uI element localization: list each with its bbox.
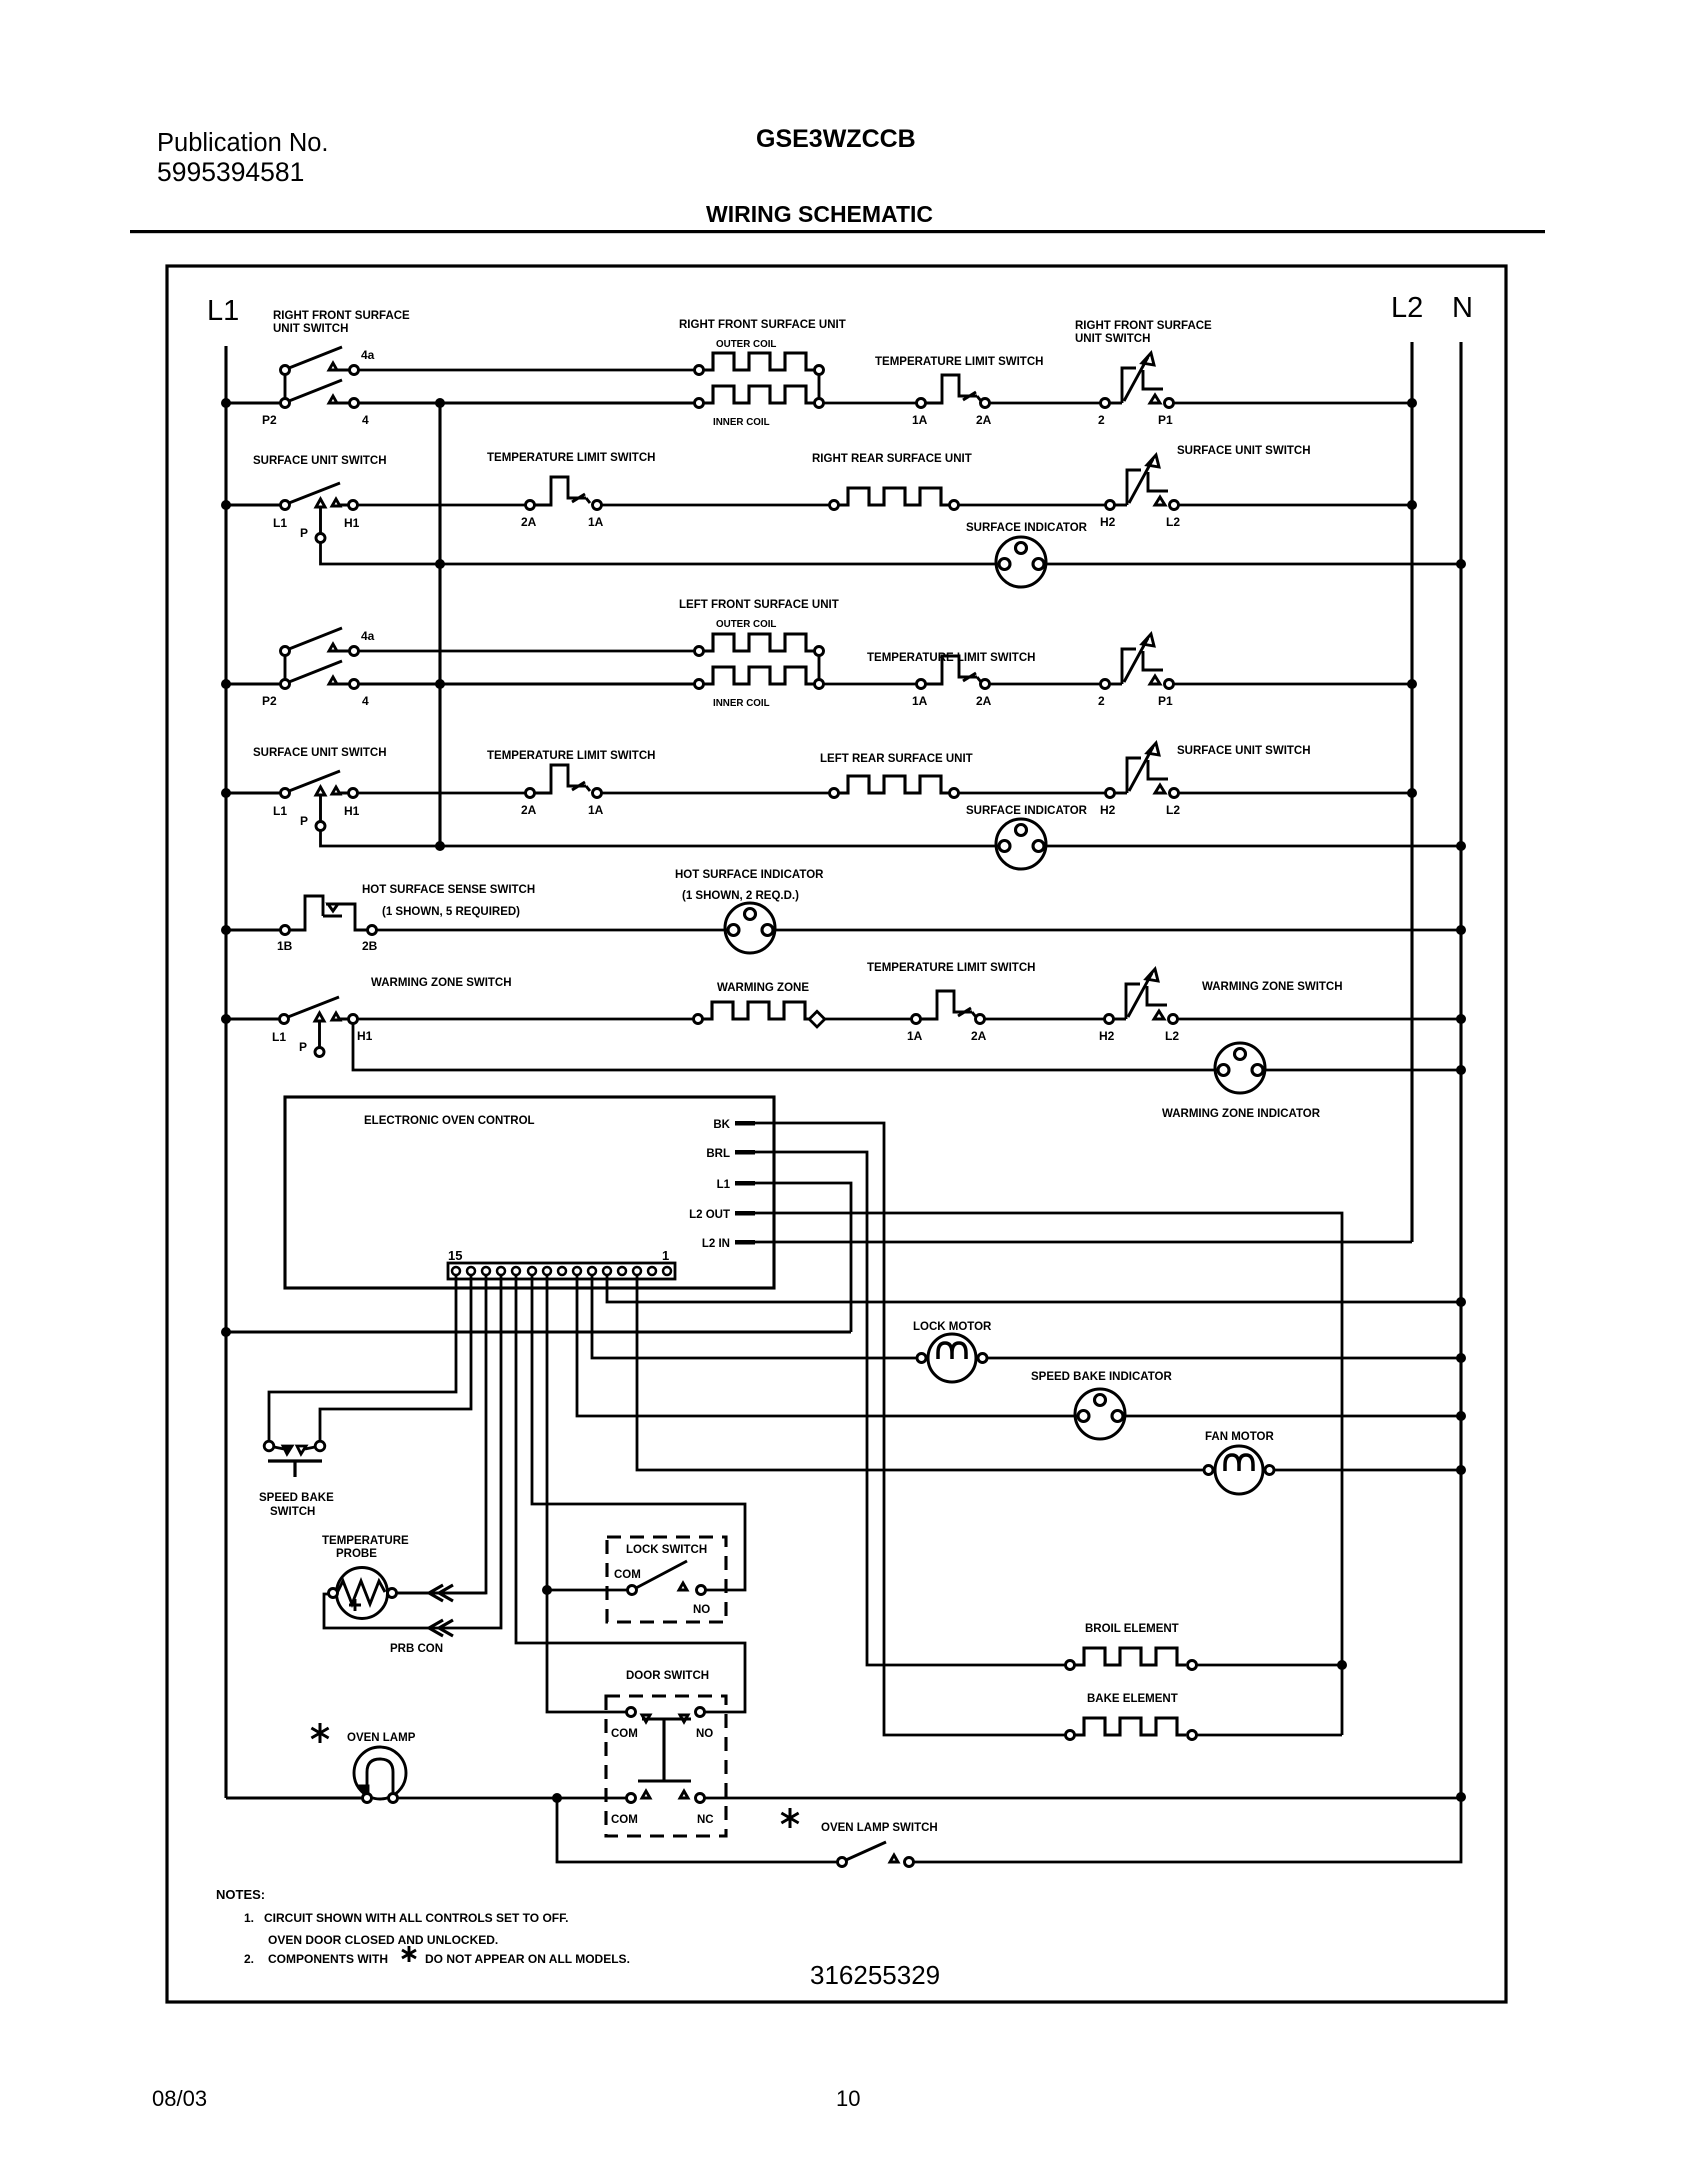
junction row3 / L2 [1407,500,1417,510]
label speed bake switch [259,1492,334,1518]
svg-text:Publication No.: Publication No. [157,129,329,157]
svg-text:OUTER COIL: OUTER COIL [716,339,776,350]
wire: L1 supply vertical line [224,346,227,1798]
junction L1 line / L1 row [221,1327,231,1337]
junction L1/row3 [221,500,231,510]
wire oven lamp switch to N [913,1797,1461,1862]
indicator lamp: hot surface indicator [725,903,775,953]
svg-text:BROIL ELEMENT: BROIL ELEMENT [1085,1623,1179,1635]
svg-text:INNER COIL: INNER COIL [713,698,770,709]
svg-text:H2: H2 [1100,515,1116,529]
svg-text:1A: 1A [907,1029,923,1043]
svg-text:L1: L1 [207,295,239,327]
svg-text:PRB CON: PRB CON [390,1643,443,1655]
wire pin7 to speed bake indicator [577,1275,1075,1416]
heater element: left rear surface unit [830,789,839,798]
svg-text:2A: 2A [976,413,992,427]
svg-text:H1: H1 [344,516,360,530]
terminal L2 OUT stub [735,1211,755,1216]
switch P2 left front surface unit switch (double pole) [281,628,359,689]
svg-text:5995394581: 5995394581 [157,157,304,187]
wire row2: coil to 1A [823,402,917,405]
wire row1: contact 4a to outer coil [358,369,695,372]
svg-text:COMPONENTS WITH: COMPONENTS WITH [268,1952,388,1966]
wire row3: H1 to 2A [357,504,526,507]
svg-text:TEMPERATURE LIMIT SWITCH: TEMPERATURE LIMIT SWITCH [875,356,1043,368]
svg-text:316255329: 316255329 [810,1960,940,1990]
svg-text:RIGHT FRONT SURFACE UNIT: RIGHT FRONT SURFACE UNIT [679,319,846,331]
label right front surface unit switch (left) [273,310,410,335]
svg-text:OUTER COIL: OUTER COIL [716,619,776,630]
switch: warming zone switch L1/P/H1 [280,997,358,1057]
svg-text:H2: H2 [1099,1029,1115,1043]
svg-text:SURFACE UNIT SWITCH: SURFACE UNIT SWITCH [1177,745,1311,757]
wire row7: H1 to 2A [357,792,526,795]
hot surface sense switch 1B/2B [281,896,377,935]
heater element: right front inner coil [695,399,704,408]
wire probe right to chevron [396,1592,486,1595]
svg-text:WARMING ZONE: WARMING ZONE [717,982,809,994]
svg-text:UNIT SWITCH: UNIT SWITCH [273,323,348,335]
svg-text:TEMPERATURE LIMIT SWITCH: TEMPERATURE LIMIT SWITCH [867,962,1035,974]
svg-text:1: 1 [662,1248,669,1263]
junction row2 / x440 riser [435,398,445,408]
junction row11 / N [1456,1065,1466,1075]
svg-text:L2: L2 [1166,803,1180,817]
svg-text:TEMPERATURE LIMIT SWITCH: TEMPERATURE LIMIT SWITCH [487,750,655,762]
wire row6 left: L1 to switch P2 [226,682,281,685]
wire pin3 to fan motor [637,1275,1215,1470]
asterisk note 2 [402,1946,416,1962]
junction row10 / N [1456,1014,1466,1024]
svg-text:SURFACE INDICATOR: SURFACE INDICATOR [966,522,1088,534]
svg-text:2B: 2B [362,939,378,953]
wire: N neutral vertical line [1459,342,1462,1797]
svg-text:COM: COM [611,1728,638,1740]
svg-text:SPEED BAKE INDICATOR: SPEED BAKE INDICATOR [1031,1371,1172,1383]
svg-text:L1: L1 [273,516,287,530]
junction row8 / N [1456,841,1466,851]
lock switch dashed enclosure [607,1537,726,1622]
junction row4 / N [1456,559,1466,569]
wire pin5 to neutral [607,1275,1461,1302]
junction row7 / L2 [1407,788,1417,798]
svg-text:L1: L1 [272,1030,286,1044]
svg-text:P: P [299,1040,307,1054]
svg-text:L1: L1 [717,1179,731,1191]
label temperature probe [322,1535,409,1560]
svg-text:2A: 2A [971,1029,987,1043]
svg-text:2A: 2A [521,803,537,817]
svg-text:UNIT SWITCH: UNIT SWITCH [1075,333,1150,345]
svg-text:1A: 1A [912,413,928,427]
speed bake switch actuator bar [268,1461,322,1477]
svg-text:2: 2 [1098,413,1105,427]
svg-text:BRL: BRL [706,1148,730,1160]
wire BRL: EOC to broil element feed [755,1152,1065,1665]
wire row7: L1 to switch [226,791,281,794]
svg-text:HOT SURFACE INDICATOR: HOT SURFACE INDICATOR [675,869,824,881]
wire L2 IN: EOC to L2 line [755,1241,1412,1244]
junction lock motor row / N [1456,1353,1466,1363]
svg-text:08/03: 08/03 [152,2086,207,2111]
switch: left front surface unit switch contact 2/P1 [1101,680,1110,689]
svg-text:H1: H1 [344,804,360,818]
svg-text:LOCK MOTOR: LOCK MOTOR [913,1321,992,1333]
svg-text:15: 15 [448,1248,462,1263]
svg-text:L2 OUT: L2 OUT [689,1209,730,1221]
svg-text:P: P [300,814,308,828]
wire pin6 to lock motor [592,1275,918,1358]
svg-text:INNER COIL: INNER COIL [713,417,770,428]
wire pin9 to door switch COM [547,1275,627,1712]
wire: tie between outer/inner coil right terminals [818,374,821,399]
wire pin10 to lock switch NO [532,1275,745,1590]
svg-text:SURFACE UNIT SWITCH: SURFACE UNIT SWITCH [1177,445,1311,457]
svg-text:2A: 2A [521,515,537,529]
temperature limit switch row7 (2A/1A) [526,789,535,798]
svg-text:TEMPERATURE: TEMPERATURE [322,1535,409,1547]
switch: surface unit switch contact H2/L2 row7 [1106,789,1115,798]
switch P2 right front surface unit switch (double pole) [281,347,359,408]
wire row9: L1 to 1B [226,928,281,931]
wire row10: 2A to H2 [984,1018,1105,1021]
switch: surface unit switch L1/P/H1 row3 [281,483,358,543]
wire broil element to L2 OUT bus [1196,1664,1342,1667]
svg-text:P2: P2 [262,413,277,427]
svg-text:SPEED BAKE: SPEED BAKE [259,1492,334,1504]
svg-text:OVEN LAMP SWITCH: OVEN LAMP SWITCH [821,1822,938,1834]
junction row8 / x440 riser [435,841,445,851]
heater element: warming zone [694,1015,703,1024]
wire row3: coil to H2 [958,504,1106,507]
heater element: bake element [1066,1731,1075,1740]
wire pin11 to door switch NO [516,1275,745,1712]
wire lamp row drop to oven lamp switch [557,1798,838,1862]
wire row2 left: L1 to switch P2 [226,401,281,404]
svg-text:RIGHT FRONT SURFACE: RIGHT FRONT SURFACE [273,310,410,322]
svg-text:LEFT REAR SURFACE UNIT: LEFT REAR SURFACE UNIT [820,753,973,765]
door switch lower contacts COM/NC [627,1791,705,1803]
wire: L2 supply vertical line [1410,342,1413,1242]
svg-text:L1: L1 [273,804,287,818]
svg-text:RIGHT FRONT SURFACE: RIGHT FRONT SURFACE [1075,320,1212,332]
svg-text:DO NOT APPEAR ON ALL MODELS.: DO NOT APPEAR ON ALL MODELS. [425,1952,630,1966]
indicator lamp: speed bake indicator [1075,1389,1125,1439]
switch: right front surface unit switch contact 2/P1 [1101,399,1110,408]
indicator lamp: warming zone indicator [1215,1043,1265,1093]
oven lamp [354,1747,406,1803]
wire row10: H1 to warming zone element [357,1018,694,1021]
svg-text:BAKE ELEMENT: BAKE ELEMENT [1087,1693,1178,1705]
svg-text:TEMPERATURE LIMIT SWITCH: TEMPERATURE LIMIT SWITCH [867,652,1035,664]
wire row2: P1 to L2 [1173,402,1412,405]
temperature limit switch row10 (1A/2A) [912,1015,921,1024]
junction L1/row6 [221,679,231,689]
svg-text:2: 2 [1098,694,1105,708]
switch: oven lamp switch [838,1842,914,1867]
wire row7: coil to H2 [958,792,1106,795]
svg-text:4: 4 [362,694,369,708]
label hot surface indicator [675,869,824,902]
wire row9: indicator to N [775,929,1461,932]
svg-text:OVEN LAMP: OVEN LAMP [347,1732,416,1744]
svg-text:TEMPERATURE LIMIT SWITCH: TEMPERATURE LIMIT SWITCH [487,452,655,464]
asterisk oven lamp [311,1723,328,1743]
svg-text:OVEN DOOR CLOSED AND UNLOCKED.: OVEN DOOR CLOSED AND UNLOCKED. [268,1933,498,1947]
svg-text:PROBE: PROBE [336,1548,377,1560]
svg-text:10: 10 [836,2086,860,2111]
terminal BRL stub [735,1150,755,1155]
svg-text:HOT SURFACE SENSE SWITCH: HOT SURFACE SENSE SWITCH [362,884,535,896]
wire L1: EOC down to L1 row [755,1183,851,1332]
svg-text:L2: L2 [1166,515,1180,529]
heater element: right front outer coil [695,366,704,375]
wire: tie between left front coil right terminals [818,655,821,680]
svg-text:RIGHT REAR SURFACE UNIT: RIGHT REAR SURFACE UNIT [812,453,972,465]
indicator lamp: surface indicator row8 [996,819,1046,869]
temperature limit switch row6 (1A/2A) [917,680,926,689]
svg-text:P1: P1 [1158,694,1173,708]
svg-text:NO: NO [693,1604,710,1616]
svg-text:4: 4 [362,413,369,427]
wire pin9 branch to lock switch COM [547,1589,628,1592]
svg-text:NOTES:: NOTES: [216,1887,265,1902]
label hot surface sense switch [362,884,535,918]
wire row3: 1A to coil [601,504,830,507]
wire row7: L2 contact to L2 line [1178,792,1412,795]
svg-text:P2: P2 [262,694,277,708]
wire pin14 to speed bake switch right [320,1275,471,1441]
terminal diamond warming zone right [809,1011,825,1027]
wire fan motor to N [1274,1469,1461,1472]
svg-text:L2 IN: L2 IN [702,1238,730,1250]
junction L1/row2 [221,398,231,408]
wire row5: contact 4a to outer coil [358,650,695,653]
junction L1/row7 [221,788,231,798]
svg-text:DOOR SWITCH: DOOR SWITCH [626,1670,709,1682]
wire lock motor to N [987,1357,1461,1360]
svg-text:SURFACE UNIT SWITCH: SURFACE UNIT SWITCH [253,747,387,759]
temperature limit switch row3 (2A/1A) [526,501,535,510]
label right front surface unit switch (right) [1075,320,1212,345]
wire door switch NC to N [704,1797,1461,1800]
svg-text:1A: 1A [912,694,928,708]
svg-text:2A: 2A [976,694,992,708]
wire row6: 2A to contact 2 [989,683,1101,686]
junction row9 / N [1456,925,1466,935]
pin connector circles 15..1 [452,1267,671,1275]
switch: surface unit switch L1/P/H1 row7 [281,771,358,831]
svg-text:2.: 2. [244,1952,254,1966]
junction row2 / L2 [1407,398,1417,408]
wire: riser x440 [438,403,441,846]
svg-text:WARMING ZONE INDICATOR: WARMING ZONE INDICATOR [1162,1108,1321,1120]
wire bake element to L2 OUT bus [1196,1734,1342,1737]
wire row6: P1 to L2 [1173,683,1412,686]
wire row6: coil to 1A [823,683,917,686]
junction speed bake indicator row / N [1456,1411,1466,1421]
wire pin13 to temperature probe [396,1275,486,1593]
terminal L1 stub [735,1181,755,1186]
heater element: broil element [1066,1661,1075,1670]
connector chevrons PRB CON top [429,1585,453,1601]
svg-text:COM: COM [614,1569,641,1581]
svg-text:4a: 4a [361,348,375,362]
svg-text:ELECTRONIC OVEN CONTROL: ELECTRONIC OVEN CONTROL [364,1115,535,1127]
svg-text:WIRING SCHEMATIC: WIRING SCHEMATIC [706,201,933,227]
svg-text:FAN MOTOR: FAN MOTOR [1205,1431,1274,1443]
temperature limit switch row2 (1A/2A) [917,399,926,408]
svg-text:WARMING ZONE SWITCH: WARMING ZONE SWITCH [371,977,512,989]
junction door NC row / N [1456,1792,1466,1802]
switch: surface unit switch contact H2/L2 row3 [1106,501,1115,510]
terminal BK stub [735,1121,755,1126]
svg-text:4a: 4a [361,629,375,643]
svg-text:SURFACE UNIT SWITCH: SURFACE UNIT SWITCH [253,455,387,467]
door switch upper contacts COM/NO [627,1708,705,1723]
svg-text:SURFACE INDICATOR: SURFACE INDICATOR [966,805,1088,817]
svg-text:P: P [300,526,308,540]
wire row11: H1 drop to warming zone indicator [353,1023,1215,1070]
title underline rule [130,230,1545,233]
asterisk oven lamp switch [781,1808,798,1828]
EOC pin connector strip [448,1263,675,1279]
junction pin5 row / N [1456,1297,1466,1307]
wire row3: L2 contact to L2 line [1178,504,1412,507]
switch: warming zone switch contact H2/L2 [1105,1015,1114,1024]
wire row8: P contact down and right to indicator [321,830,997,846]
svg-text:COM: COM [611,1814,638,1826]
switch: lock switch COM/NO [628,1561,706,1595]
junction broil row / L2 OUT bus [1337,1660,1347,1670]
wire L2 OUT: EOC to element bus [755,1213,1342,1735]
wire BK: EOC to bake element feed [755,1123,1065,1735]
heater element: left front outer coil [695,647,704,656]
wire L1 row: L1 line to EOC L1 drop [226,1330,851,1333]
temperature probe (sensor) [329,1568,397,1619]
wire row10: element to 1A [823,1018,912,1021]
indicator lamp: surface indicator row4 [996,537,1046,587]
heater element: right rear surface unit [830,501,839,510]
svg-text:NC: NC [697,1814,714,1826]
junction row6 / L2 [1407,679,1417,689]
junction oven lamp row / lamp switch drop [552,1793,562,1803]
svg-text:1A: 1A [588,803,604,817]
svg-text:L2: L2 [1391,292,1423,324]
svg-text:LEFT FRONT SURFACE UNIT: LEFT FRONT SURFACE UNIT [679,599,839,611]
wire speed bake indicator to N [1125,1415,1461,1418]
motor: lock motor [917,1334,987,1382]
wire row8: indicator to N [1046,845,1461,848]
heater element: left front inner coil [695,680,704,689]
wire row9: 2B to indicator [376,929,725,932]
wire row10: L1 to switch [226,1017,280,1020]
door switch actuator tie [638,1719,691,1781]
wire oven lamp to door switch COM lower [397,1797,627,1800]
svg-text:BK: BK [713,1119,730,1131]
junction fan motor row / N [1456,1465,1466,1475]
junction L1/row10 [221,1014,231,1024]
door switch dashed enclosure [606,1696,726,1836]
svg-text:NO: NO [696,1728,713,1740]
wire L1 line to oven lamp [226,1796,362,1799]
wire row3: L1 to switch [226,503,281,506]
wire row2: 2A to contact 2 [989,402,1101,405]
svg-text:(1 SHOWN, 5 REQUIRED): (1 SHOWN, 5 REQUIRED) [382,906,520,918]
svg-text:SWITCH: SWITCH [270,1506,315,1518]
terminal L2 IN stub [735,1240,755,1245]
junction row4 / x440 riser [435,559,445,569]
svg-text:1A: 1A [588,515,604,529]
svg-text:N: N [1452,292,1473,324]
svg-text:L2: L2 [1165,1029,1179,1043]
junction row6 / x440 riser [435,679,445,689]
wire row2: contact 4 to inner coil [358,401,695,404]
schematic border frame [167,266,1506,2002]
motor: fan motor [1204,1446,1274,1494]
svg-text:H1: H1 [357,1029,373,1043]
svg-text:1. CIRCUIT SHOWN WITH ALL CO: 1. CIRCUIT SHOWN WITH ALL CONTROLS SET T… [244,1911,568,1925]
wire pin15 to speed bake switch left [269,1275,456,1441]
wire row11: indicator to N [1265,1069,1461,1072]
svg-text:WARMING ZONE SWITCH: WARMING ZONE SWITCH [1202,981,1343,993]
wire row4: P contact down and right to indicator [321,542,997,564]
svg-text:P1: P1 [1158,413,1173,427]
wire row7: 1A to coil [601,792,830,795]
electronic oven control box [285,1097,774,1288]
connector chevrons PRB CON bottom [429,1620,453,1636]
svg-text:H2: H2 [1100,803,1116,817]
svg-text:1B: 1B [277,939,293,953]
wire row4: indicator to N [1046,563,1461,566]
svg-text:GSE3WZCCB: GSE3WZCCB [756,125,916,153]
svg-text:(1 SHOWN, 2 REQ.D.): (1 SHOWN, 2 REQ.D.) [682,890,799,902]
svg-text:LOCK SWITCH: LOCK SWITCH [626,1544,707,1556]
junction L1/row9 [221,925,231,935]
speed bake switch contacts [264,1441,325,1454]
wire pin12 to probe return [324,1275,501,1628]
wire row6: contact 4 to inner coil [358,682,695,685]
junction pin9 / lock switch COM feed [542,1585,552,1595]
wire row10: L2 contact to N [1177,1018,1461,1021]
